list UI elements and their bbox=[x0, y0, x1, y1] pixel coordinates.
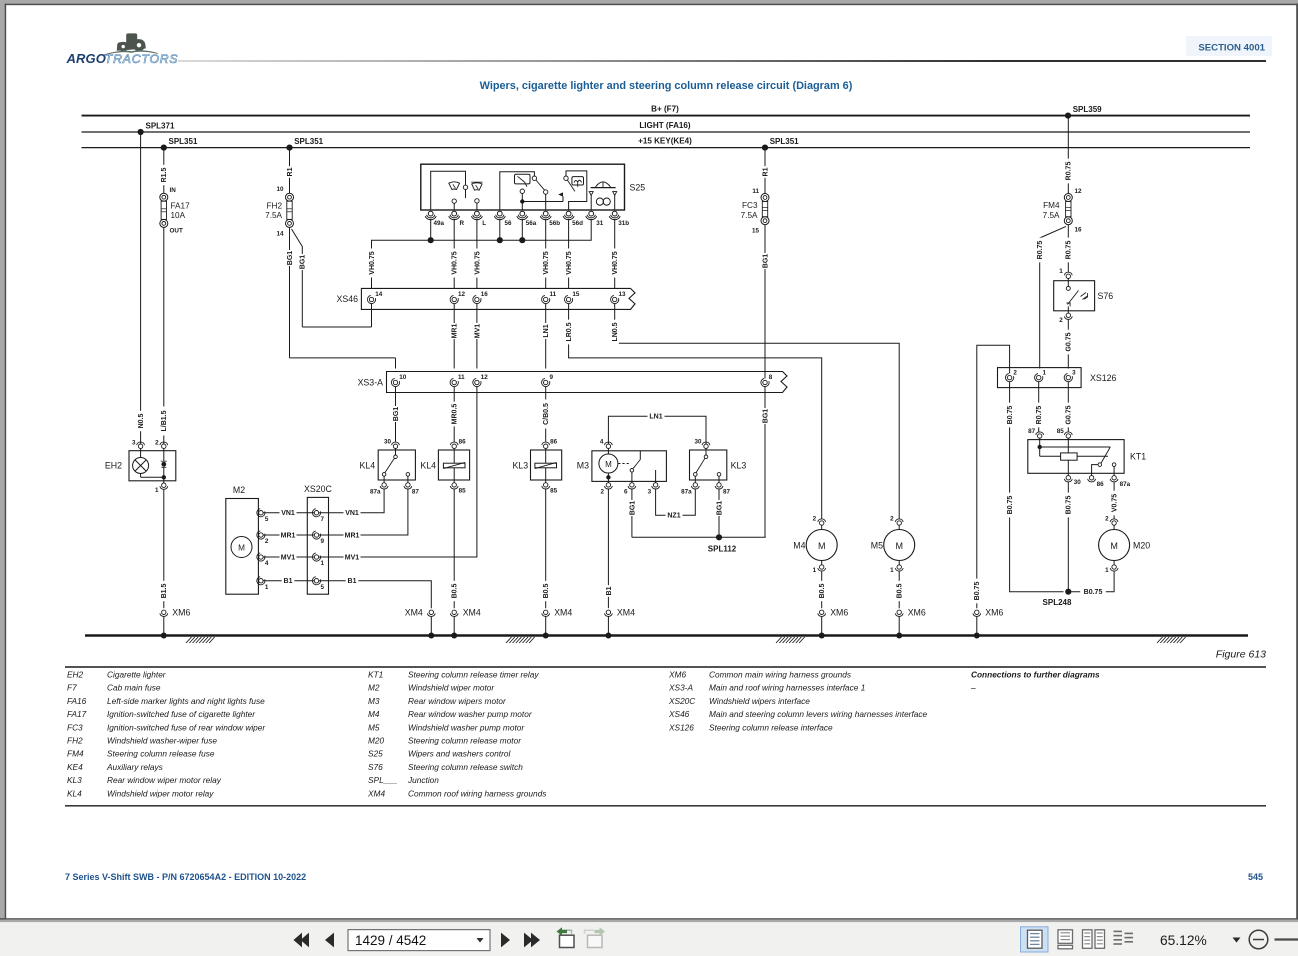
svg-text:85: 85 bbox=[1057, 428, 1065, 435]
wire R1 from SPL351 to fuse FH2 bbox=[285, 148, 294, 194]
toolbar facing pages mode bbox=[1083, 930, 1105, 949]
svg-text:Steering column release interf: Steering column release interface bbox=[709, 722, 833, 732]
svg-text:M5: M5 bbox=[871, 540, 883, 550]
ground XM4 at x=431.3 bbox=[405, 608, 436, 639]
svg-text:11: 11 bbox=[458, 374, 465, 381]
svg-text:9: 9 bbox=[550, 374, 554, 381]
svg-text:EH2: EH2 bbox=[67, 670, 84, 680]
svg-text:R0.75: R0.75 bbox=[1037, 241, 1044, 260]
legend column 3 bbox=[668, 670, 928, 733]
svg-text:10: 10 bbox=[399, 374, 407, 381]
wire B1 M2 pin 1 to XS20C pin 5 bbox=[263, 577, 314, 586]
wire MR0.5 XS3-A pin 11 to relay KL4 coil pin 86 bbox=[450, 387, 459, 442]
svg-text:1: 1 bbox=[1059, 268, 1063, 275]
svg-text:KT1: KT1 bbox=[1130, 452, 1146, 462]
svg-text:B0.75: B0.75 bbox=[974, 582, 981, 601]
svg-text:VH0.75: VH0.75 bbox=[369, 251, 376, 274]
toolbar last page button bbox=[524, 933, 540, 948]
svg-text:BG1: BG1 bbox=[300, 255, 307, 270]
wire LR0.5 XS46 pin 15 to pump M4 bbox=[564, 304, 821, 520]
wire R1 from SPL351 to fuse FC3 bbox=[761, 148, 770, 194]
node SPL112 bbox=[632, 534, 766, 553]
svg-text:VH0.75: VH0.75 bbox=[612, 251, 619, 274]
svg-text:M20: M20 bbox=[1133, 540, 1150, 550]
ground bus bbox=[85, 634, 1248, 637]
svg-text:B1: B1 bbox=[284, 578, 293, 585]
toolbar background bbox=[0, 922, 1298, 956]
svg-text:3: 3 bbox=[132, 439, 136, 446]
svg-text:M: M bbox=[605, 460, 612, 469]
svg-text:14: 14 bbox=[276, 231, 284, 238]
svg-text:MV1: MV1 bbox=[474, 324, 481, 339]
svg-text:XM4: XM4 bbox=[367, 788, 385, 798]
svg-text:Auxiliary relays: Auxiliary relays bbox=[106, 762, 163, 772]
toolbar first page button bbox=[294, 933, 310, 948]
svg-text:XM6: XM6 bbox=[172, 608, 190, 618]
windshield wiper motor M2 bbox=[226, 485, 269, 594]
legend column 2 bbox=[367, 670, 546, 799]
toolbar previous page button bbox=[325, 933, 334, 948]
svg-text:B1: B1 bbox=[348, 578, 357, 585]
svg-text:XM4: XM4 bbox=[463, 608, 481, 618]
svg-text:FM4: FM4 bbox=[67, 749, 84, 759]
rear window washer pump M4 bbox=[793, 515, 837, 573]
svg-text:FA17: FA17 bbox=[67, 709, 87, 719]
svg-text:B0.75: B0.75 bbox=[1084, 589, 1103, 596]
wire BG1 M3 pin 6 to SPL112 bbox=[628, 489, 637, 537]
svg-text:Ignition-switched fuse of ciga: Ignition-switched fuse of cigarette ligh… bbox=[107, 709, 256, 719]
svg-text:VH0.75: VH0.75 bbox=[474, 251, 481, 274]
wire VH0.75 S25 pin 56d to XS46 pin 15 bbox=[564, 219, 573, 296]
svg-text:10: 10 bbox=[276, 186, 284, 193]
wire BG1 XS3-A pin 10 to relay KL4 pin 30 bbox=[391, 387, 400, 442]
wire MR1 XS20C pin 9 to KL4 pin 87 bbox=[319, 489, 408, 539]
svg-text:V0.75: V0.75 bbox=[1112, 494, 1119, 512]
svg-text:7.5A: 7.5A bbox=[741, 211, 758, 220]
svg-text:Main and roof wiring harnesses: Main and roof wiring harnesses interface… bbox=[709, 683, 865, 693]
svg-text:15: 15 bbox=[572, 291, 580, 298]
wire MR1 XS46 pin 12 to XS3-A pin 11 bbox=[450, 304, 459, 369]
svg-text:FH2: FH2 bbox=[267, 202, 283, 211]
ground bus hatch at x=506 bbox=[506, 637, 535, 643]
svg-text:Junction: Junction bbox=[407, 775, 439, 785]
svg-text:Figure 613: Figure 613 bbox=[1216, 649, 1266, 661]
svg-text:KL3: KL3 bbox=[67, 775, 82, 785]
svg-text:M3: M3 bbox=[577, 461, 589, 471]
legend rule bottom bbox=[65, 805, 1266, 807]
svg-text:TRACTORS: TRACTORS bbox=[105, 52, 179, 66]
svg-text:M2: M2 bbox=[368, 683, 380, 693]
svg-text:KL4: KL4 bbox=[420, 461, 436, 471]
svg-text:3: 3 bbox=[1072, 369, 1076, 376]
svg-text:XS126: XS126 bbox=[668, 722, 694, 732]
svg-text:4: 4 bbox=[265, 560, 269, 567]
svg-text:12: 12 bbox=[458, 291, 466, 298]
svg-text:XS126: XS126 bbox=[1090, 373, 1117, 383]
svg-text:XM6: XM6 bbox=[985, 608, 1003, 618]
svg-text:SPL371: SPL371 bbox=[146, 122, 175, 131]
svg-text:NZ1: NZ1 bbox=[667, 513, 680, 520]
svg-text:OUT: OUT bbox=[170, 228, 183, 235]
svg-text:FM4: FM4 bbox=[1043, 201, 1060, 210]
svg-text:Common main wiring harness gro: Common main wiring harness grounds bbox=[709, 670, 851, 680]
wire MV1 M2 pin 4 to XS20C pin 1 bbox=[263, 553, 314, 562]
svg-text:Steering column release timer: Steering column release timer relay bbox=[408, 670, 539, 680]
windshield wipers interface XS20C bbox=[304, 484, 333, 594]
windshield washer pump M5 bbox=[871, 515, 915, 573]
wire XS126 pin 2 to ground XM6 bbox=[973, 345, 1010, 608]
rear window wiper motor M3 bbox=[577, 439, 667, 496]
ground XM6 at x=976.8 bbox=[973, 608, 1004, 639]
svg-text:S25: S25 bbox=[368, 749, 383, 759]
wire VN1 M2 pin 5 to XS20C pin 7 bbox=[263, 509, 314, 518]
svg-text:–: – bbox=[970, 683, 976, 693]
toolbar zoom percent bbox=[1160, 933, 1207, 948]
svg-text:1: 1 bbox=[265, 584, 269, 591]
svg-text:BG1: BG1 bbox=[393, 407, 400, 422]
svg-text:87a: 87a bbox=[370, 489, 381, 496]
svg-text:M2: M2 bbox=[233, 485, 245, 495]
svg-text:B0.5: B0.5 bbox=[452, 584, 459, 599]
svg-text:56b: 56b bbox=[549, 220, 560, 227]
svg-text:545: 545 bbox=[1248, 872, 1263, 882]
svg-text:MR1: MR1 bbox=[452, 324, 459, 339]
svg-text:S25: S25 bbox=[630, 183, 646, 193]
svg-text:Rear window wipers motor: Rear window wipers motor bbox=[408, 696, 507, 706]
fuse FC3 7.5A bbox=[741, 188, 769, 235]
wire MV1 XS46 pin 16 to XS3-A pin 12 bbox=[473, 304, 482, 369]
svg-text:XM4: XM4 bbox=[554, 608, 572, 618]
wire XS3-A pin 12 to interface XS20C (MV) bbox=[329, 387, 477, 558]
svg-text:R: R bbox=[460, 220, 465, 227]
svg-text:1: 1 bbox=[321, 560, 325, 567]
svg-text:Windshield wipers interface: Windshield wipers interface bbox=[709, 696, 810, 706]
svg-text:BG1: BG1 bbox=[762, 254, 769, 269]
wire B0.5 M4 pin 1 to ground XM6 bbox=[818, 571, 827, 608]
svg-text:Wipers, cigarette lighter and: Wipers, cigarette lighter and steering c… bbox=[480, 80, 853, 92]
wire R0.75 from SPL359 to fuse FM4 bbox=[1064, 116, 1073, 194]
steering column release switch S76 bbox=[1054, 268, 1114, 324]
svg-text:B0.5: B0.5 bbox=[819, 584, 826, 599]
svg-text:R0.75: R0.75 bbox=[1036, 406, 1043, 425]
fuse FM4 7.5A bbox=[1043, 188, 1082, 234]
node SPL371 bbox=[138, 122, 175, 135]
svg-text:LR0.5: LR0.5 bbox=[566, 322, 573, 341]
svg-text:87a: 87a bbox=[681, 489, 692, 496]
svg-text:30: 30 bbox=[1074, 479, 1082, 486]
ground XM4 at x=545.7 bbox=[542, 608, 573, 639]
diagram title bbox=[480, 80, 853, 92]
svg-text:14: 14 bbox=[375, 291, 383, 298]
wire B0.75 M20 pin 1 to SPL248 bbox=[1068, 571, 1114, 596]
relay KL4 (coil) bbox=[420, 439, 469, 495]
svg-text:N0.5: N0.5 bbox=[138, 414, 145, 429]
svg-text:M: M bbox=[895, 541, 903, 551]
connector XS46 bbox=[336, 288, 635, 309]
wire B0.5 M5 pin 1 to ground XM6 bbox=[895, 571, 904, 608]
svg-text:B0.5: B0.5 bbox=[543, 584, 550, 599]
wire MV1 XS20C pin 1 toward XS3-A pin 12 bbox=[319, 553, 361, 562]
wire FH2 left branch to XS3-A pin 10 bbox=[290, 358, 396, 369]
svg-text:G0.75: G0.75 bbox=[1066, 332, 1073, 351]
svg-text:BG1: BG1 bbox=[762, 409, 769, 424]
svg-text:XS3-A: XS3-A bbox=[668, 683, 693, 693]
svg-text:8: 8 bbox=[769, 374, 773, 381]
svg-text:LN0.5: LN0.5 bbox=[612, 322, 619, 341]
svg-text:MR1: MR1 bbox=[281, 532, 296, 539]
svg-text:87: 87 bbox=[412, 489, 420, 496]
svg-text:31b: 31b bbox=[618, 220, 629, 227]
svg-text:85: 85 bbox=[550, 488, 558, 495]
toolbar next page button bbox=[501, 933, 510, 948]
svg-text:B0.5: B0.5 bbox=[897, 584, 904, 599]
svg-text:R0.75: R0.75 bbox=[1066, 241, 1073, 260]
svg-text:1429 / 4542: 1429 / 4542 bbox=[355, 933, 426, 948]
svg-text:G0.75: G0.75 bbox=[1066, 405, 1073, 424]
svg-text:Windshield washer-wiper fuse: Windshield washer-wiper fuse bbox=[107, 736, 217, 746]
ground XM4 at x=608.4 bbox=[604, 608, 635, 639]
svg-text:ARGO: ARGO bbox=[66, 51, 106, 66]
svg-text:1: 1 bbox=[1043, 369, 1047, 376]
wire VH0.75 S25 pin 31b to XS46 pin 13 bbox=[611, 219, 620, 296]
svg-text:VH0.75: VH0.75 bbox=[566, 251, 573, 274]
svg-text:Steering column release motor: Steering column release motor bbox=[408, 736, 522, 746]
svg-text:56a: 56a bbox=[526, 220, 537, 227]
svg-text:BG1: BG1 bbox=[716, 501, 723, 516]
svg-text:2: 2 bbox=[155, 439, 159, 446]
wire N0.5 from SPL371 to EH2 pin 3 bbox=[136, 132, 145, 444]
svg-text:XS20C: XS20C bbox=[304, 484, 333, 494]
svg-text:R0.75: R0.75 bbox=[1066, 162, 1073, 181]
svg-text:MR0.5: MR0.5 bbox=[452, 404, 459, 425]
node SPL351 (middle) bbox=[286, 137, 323, 151]
svg-text:30: 30 bbox=[694, 439, 702, 446]
svg-text:LN1: LN1 bbox=[649, 414, 662, 421]
svg-text:56d: 56d bbox=[572, 220, 583, 227]
svg-text:16: 16 bbox=[481, 291, 489, 298]
svg-text:L: L bbox=[482, 220, 486, 227]
svg-text:85: 85 bbox=[459, 488, 467, 495]
svg-text:M: M bbox=[238, 544, 245, 553]
svg-text:Steering column release switch: Steering column release switch bbox=[408, 762, 523, 772]
svg-text:SPL351: SPL351 bbox=[294, 137, 323, 146]
wipers and washers control S25 bbox=[421, 164, 645, 227]
wire LN1 link M3 pin 4 to KL3 pin 30 bbox=[608, 412, 706, 444]
wire bus LIGHT (FA16) bbox=[82, 121, 1251, 132]
relay KL3 (coil) bbox=[512, 439, 561, 495]
svg-text:LIGHT (FA16): LIGHT (FA16) bbox=[639, 121, 691, 130]
svg-text:R1: R1 bbox=[762, 167, 769, 176]
svg-text:Rear window wiper motor relay: Rear window wiper motor relay bbox=[107, 775, 222, 785]
wire VH0.75 S25 pin R to XS46 pin 12 bbox=[450, 219, 459, 296]
svg-text:56: 56 bbox=[505, 220, 513, 227]
wire R1.5 from SPL351 to fuse FA17 bbox=[160, 148, 169, 194]
ground XM6 at x=163.8 bbox=[160, 608, 191, 639]
svg-text:M: M bbox=[818, 541, 826, 551]
svg-text:M5: M5 bbox=[368, 722, 380, 732]
wire bus B+ (F7) bbox=[82, 105, 1251, 116]
svg-text:XM6: XM6 bbox=[830, 608, 848, 618]
wire B0.75 KT1 pin 30 to SPL248 bbox=[1064, 482, 1073, 592]
fuse FA17 10A bbox=[160, 187, 190, 235]
svg-text:VN1: VN1 bbox=[345, 510, 359, 517]
svg-text:Windshield washer pump motor: Windshield washer pump motor bbox=[408, 722, 525, 732]
svg-text:FA16: FA16 bbox=[67, 696, 87, 706]
wire C/B0.5 XS3-A pin 9 to relay KL3 coil pin 86 bbox=[542, 387, 551, 442]
svg-text:XM6: XM6 bbox=[668, 670, 686, 680]
svg-text:XM6: XM6 bbox=[908, 608, 926, 618]
svg-text:IN: IN bbox=[170, 187, 177, 194]
svg-text:S76: S76 bbox=[1098, 291, 1114, 301]
wire S25 pin 56a to collector bbox=[521, 219, 523, 240]
wire B1 XS20C pin 5 to ground XM4 bbox=[319, 577, 432, 609]
svg-text:XS46: XS46 bbox=[668, 709, 690, 719]
svg-text:C/B0.5: C/B0.5 bbox=[543, 403, 550, 425]
wire VH0.75 S25 pin L to XS46 pin 16 bbox=[473, 219, 482, 296]
svg-text:1: 1 bbox=[155, 487, 159, 494]
svg-text:87: 87 bbox=[1028, 428, 1036, 435]
svg-text:11: 11 bbox=[550, 291, 557, 298]
svg-text:7: 7 bbox=[321, 516, 325, 523]
wire R0.75 XS126 pin 1 to KT1 pin 87 bbox=[1035, 382, 1044, 432]
footer bbox=[65, 872, 1263, 882]
svg-text:XS3-A: XS3-A bbox=[358, 377, 384, 387]
svg-text:VH0.75: VH0.75 bbox=[452, 251, 459, 274]
svg-text:VH0.75: VH0.75 bbox=[543, 251, 550, 274]
node SPL351 (right) bbox=[762, 137, 799, 151]
wire G0.75 S76 pin 2 to XS126 pin 3 bbox=[1064, 319, 1073, 368]
svg-text:7.5A: 7.5A bbox=[265, 211, 282, 220]
svg-text:S76: S76 bbox=[368, 762, 383, 772]
wire LN1 XS46 pin 11 to XS3-A pin 9 bbox=[542, 304, 551, 369]
svg-text:16: 16 bbox=[1075, 226, 1083, 233]
svg-text:12: 12 bbox=[481, 374, 489, 381]
svg-text:B+ (F7): B+ (F7) bbox=[651, 105, 679, 114]
svg-text:Wipers and washers control: Wipers and washers control bbox=[408, 749, 511, 759]
toolbar single page mode (selected) bbox=[1021, 927, 1049, 952]
wire BG1 KL3 pin 87 to SPL112 bbox=[715, 489, 724, 537]
wire LN0.5 XS46 pin 13 to pump M5 bbox=[611, 304, 900, 520]
svg-text:+15 KEY(KE4): +15 KEY(KE4) bbox=[638, 137, 692, 146]
svg-text:12: 12 bbox=[1075, 188, 1083, 195]
svg-text:Cab main fuse: Cab main fuse bbox=[107, 683, 161, 693]
ground XM4 at x=454.2 bbox=[450, 608, 481, 639]
svg-text:MV1: MV1 bbox=[281, 554, 296, 561]
svg-text:Left-side marker lights and ni: Left-side marker lights and night lights… bbox=[107, 696, 265, 706]
legend rule top bbox=[65, 666, 1266, 668]
svg-text:Cigarette lighter: Cigarette lighter bbox=[107, 670, 167, 680]
relay KL3 (contact) bbox=[681, 439, 746, 496]
svg-text:XS20C: XS20C bbox=[668, 696, 696, 706]
svg-text:1: 1 bbox=[1105, 567, 1109, 574]
svg-text:KL3: KL3 bbox=[731, 461, 747, 471]
svg-text:SPL351: SPL351 bbox=[169, 137, 198, 146]
svg-text:7 Series V-Shift SWB - P/N 672: 7 Series V-Shift SWB - P/N 6720654A2 - E… bbox=[65, 872, 306, 882]
wire B0.5 KL3 coil pin 85 to ground XM4 bbox=[542, 489, 551, 608]
cigarette lighter EH2 bbox=[105, 439, 176, 494]
toolbar next view icon (disabled) bbox=[585, 927, 606, 947]
wire MR1 M2 pin 2 to XS20C pin 9 bbox=[263, 531, 314, 540]
svg-text:FH2: FH2 bbox=[67, 736, 83, 746]
wire BG1 FC3 to XS3-A pin 8 bbox=[761, 225, 770, 379]
logo Argo Tractors bbox=[66, 33, 179, 65]
toolbar continuous mode bbox=[1058, 930, 1073, 949]
toolbar zoom slider track bbox=[1275, 938, 1298, 940]
wire B0.75 XS126 pin 2 to SPL248 bbox=[1005, 382, 1063, 592]
svg-text:SECTION 4001: SECTION 4001 bbox=[1198, 43, 1265, 54]
svg-text:BG1: BG1 bbox=[287, 251, 294, 266]
svg-text:M20: M20 bbox=[368, 736, 385, 746]
svg-text:86: 86 bbox=[459, 439, 467, 446]
svg-text:49a: 49a bbox=[434, 220, 445, 227]
svg-text:Common roof wiring harness gro: Common roof wiring harness grounds bbox=[408, 788, 546, 798]
svg-text:Ignition-switched fuse of rear: Ignition-switched fuse of rear window wi… bbox=[107, 722, 266, 732]
svg-text:BG1: BG1 bbox=[629, 501, 636, 516]
svg-text:87a: 87a bbox=[1120, 481, 1131, 488]
wire V0.75 KT1 pin 87a to motor M20 pin 2 bbox=[1110, 482, 1119, 519]
svg-text:VN1: VN1 bbox=[281, 510, 295, 517]
svg-text:KT1: KT1 bbox=[368, 670, 383, 680]
svg-text:2: 2 bbox=[813, 515, 817, 522]
wire NZ1 KL3 pin 87a to M3 pin 3 bbox=[656, 489, 696, 520]
svg-text:L/B1.5: L/B1.5 bbox=[161, 410, 168, 431]
wire B1.5 from EH2 pin 1 to ground XM6 bbox=[160, 489, 169, 608]
svg-text:Windshield wiper motor: Windshield wiper motor bbox=[408, 683, 495, 693]
svg-text:F7: F7 bbox=[67, 683, 77, 693]
svg-text:31: 31 bbox=[596, 220, 604, 227]
svg-text:SPL112: SPL112 bbox=[708, 545, 737, 554]
svg-text:XM4: XM4 bbox=[617, 608, 635, 618]
wire bus +15 KEY (KE4) bbox=[82, 137, 1251, 148]
svg-text:M3: M3 bbox=[368, 696, 380, 706]
svg-text:B0.75: B0.75 bbox=[1066, 496, 1073, 515]
svg-text:EH2: EH2 bbox=[105, 461, 122, 471]
svg-text:87: 87 bbox=[723, 489, 731, 496]
svg-text:B0.75: B0.75 bbox=[1007, 496, 1014, 515]
legend column 1 bbox=[67, 670, 266, 799]
svg-text:FA17: FA17 bbox=[171, 202, 191, 211]
svg-text:2: 2 bbox=[1059, 317, 1063, 324]
svg-text:5: 5 bbox=[321, 584, 325, 591]
ground bus hatch at x=776 bbox=[776, 637, 805, 643]
relay KL4 (contact) bbox=[360, 439, 420, 496]
wire L/B1.5 from FA17 to EH2 pin 2 bbox=[160, 227, 169, 443]
svg-text:5: 5 bbox=[265, 516, 269, 523]
header rule bbox=[178, 60, 1266, 62]
svg-text:B1.5: B1.5 bbox=[161, 584, 168, 599]
svg-text:FC3: FC3 bbox=[67, 722, 83, 732]
wire BG1 from FH2 down (left branch) bbox=[285, 227, 294, 358]
wire R0.75 FM4 to switch S76 pin 1 bbox=[1064, 225, 1073, 273]
svg-text:M4: M4 bbox=[793, 540, 805, 550]
svg-text:6: 6 bbox=[624, 489, 628, 496]
svg-text:KE4: KE4 bbox=[67, 762, 83, 772]
node SPL351 (left) bbox=[161, 137, 198, 151]
svg-text:B1: B1 bbox=[606, 586, 613, 595]
wire R0.75 FM4 to XS126 pin 1 bbox=[1036, 226, 1067, 368]
wire B0.5 KL4 coil pin 85 to ground XM4 bbox=[450, 489, 459, 608]
svg-text:MV1: MV1 bbox=[345, 554, 360, 561]
svg-text:2: 2 bbox=[1013, 369, 1017, 376]
ground bus hatch at x=1157 bbox=[1157, 637, 1186, 643]
legend further diagrams bbox=[970, 670, 1100, 693]
svg-text:KL4: KL4 bbox=[360, 461, 376, 471]
svg-text:86: 86 bbox=[550, 439, 558, 446]
svg-text:SPL351: SPL351 bbox=[770, 137, 799, 146]
wire BG1 from FH2 diagonal (right branch) bbox=[292, 229, 307, 327]
svg-text:13: 13 bbox=[619, 291, 627, 298]
svg-text:KL4: KL4 bbox=[67, 788, 82, 798]
